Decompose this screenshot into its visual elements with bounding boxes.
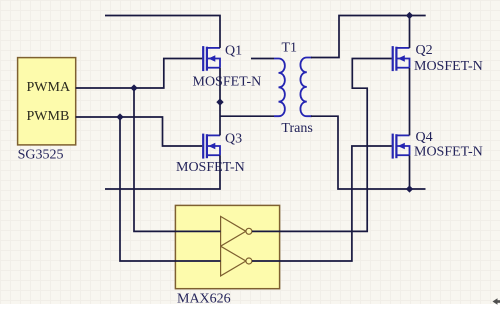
junction PWMB net <box>116 113 123 120</box>
transistor Q1 channel bar <box>206 47 208 71</box>
transistor Q4 channel bar <box>395 134 397 158</box>
wire PWMB pin to Q3 gate <box>76 117 203 146</box>
transistor Q3 gate bar <box>202 134 204 159</box>
wire PWMB drop to MAX626 input B <box>120 117 221 261</box>
wire Q4 source to bottom-right rail <box>409 155 411 189</box>
transistor Q4 bulk stub <box>398 146 410 155</box>
transistor Q2 gate bar <box>392 46 394 71</box>
transistor Q3 source stub <box>207 154 220 156</box>
wire MAX626 out B to Q4 gate <box>252 146 392 261</box>
svg-text:MOSFET-N: MOSFET-N <box>414 145 483 160</box>
wire MAX626 out A to Q2 gate <box>252 59 392 232</box>
transistor Q4 source stub <box>396 154 409 156</box>
transistor Q3 bulk stub <box>208 146 220 155</box>
transistor Q1 bulk arrow <box>208 55 215 62</box>
inverter 2 triangle <box>221 246 246 276</box>
svg-text:MOSFET-N: MOSFET-N <box>176 160 245 175</box>
IC body MAX626 <box>175 205 279 288</box>
svg-text:Q3: Q3 <box>225 132 242 147</box>
inverter 1 triangle <box>221 216 246 246</box>
transistor Q4 drain stub <box>396 134 409 136</box>
wire Q1 source to Q3 drain <box>219 68 221 136</box>
transistor Q3 bulk arrow <box>208 143 215 150</box>
wire T1 primary top lead (dead end) <box>251 58 274 60</box>
wire T1 primary bottom lead to center column <box>220 115 274 117</box>
wire Q2 source to Q4 drain <box>409 68 411 136</box>
transistor Q1 bulk stub <box>208 59 220 68</box>
junction top-right rail / Q2 drain <box>406 12 413 19</box>
svg-text:MAX626: MAX626 <box>177 292 231 307</box>
transistor Q4 gate bar <box>392 134 394 159</box>
cursor mark bottom-right <box>493 298 500 305</box>
transistor Q4 bulk arrow <box>398 143 405 150</box>
transistor Q2 channel bar <box>395 47 397 71</box>
svg-text:MOSFET-N: MOSFET-N <box>414 59 483 74</box>
transistor Q1 source stub <box>207 67 220 69</box>
transistor Q1 drain stub <box>207 47 220 49</box>
transformer T1 secondary winding <box>300 58 312 117</box>
svg-text:Trans: Trans <box>281 121 312 136</box>
svg-text:T1: T1 <box>282 41 298 56</box>
transistor Q3 drain stub <box>207 134 220 136</box>
wire T1 secondary bottom lead down to bottom-right rail <box>311 116 426 189</box>
svg-text:PWMA: PWMA <box>27 80 71 95</box>
wire Q3 source down and left rail (dead end) <box>105 155 220 189</box>
transistor Q3 channel bar <box>206 134 208 158</box>
junction PWMA net <box>130 84 137 91</box>
IC body SG3525 <box>18 58 76 145</box>
junction bottom-right rail / Q4 source <box>406 185 413 192</box>
svg-text:Q4: Q4 <box>416 130 433 145</box>
svg-text:PWMB: PWMB <box>27 109 70 124</box>
wire top-left rail to Q1 drain <box>105 16 220 48</box>
wire T1 secondary top lead up to top-right rail <box>311 16 426 58</box>
transistor Q2 drain stub <box>396 47 409 49</box>
junction center column / T1 primary <box>216 98 223 105</box>
svg-text:MOSFET-N: MOSFET-N <box>193 75 262 90</box>
transistor Q1 gate bar <box>202 46 204 71</box>
wire PWMA drop to MAX626 input A <box>134 88 221 231</box>
svg-text:SG3525: SG3525 <box>18 148 64 163</box>
transformer T1 primary winding <box>274 59 285 117</box>
inverter 2 bubble <box>246 258 252 264</box>
svg-text:Q1: Q1 <box>225 44 242 59</box>
svg-text:Q2: Q2 <box>416 43 433 58</box>
transistor Q2 bulk arrow <box>398 55 405 62</box>
transistor Q2 bulk stub <box>398 59 410 68</box>
inverter 1 bubble <box>246 228 252 234</box>
wire top-right rail to Q2 drain <box>409 16 411 48</box>
transistor Q2 source stub <box>396 67 409 69</box>
wire PWMA pin to Q1 gate <box>76 59 203 89</box>
